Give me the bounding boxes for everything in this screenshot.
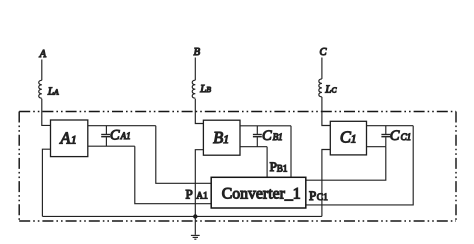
wire phase C drop — [321, 58, 323, 79]
svg-text:LB: LB — [199, 83, 211, 95]
svg-text:LA: LA — [47, 85, 59, 97]
enclosure dash-dot border right — [455, 112, 457, 222]
wire B lower vertical to converter top — [266, 147, 268, 178]
svg-text:LC: LC — [324, 83, 337, 95]
svg-text:C: C — [320, 47, 328, 58]
inductor LA coil — [39, 80, 42, 98]
svg-text:B: B — [213, 128, 223, 147]
wire C1 top-right terminal — [367, 125, 414, 127]
svg-text:Converter_1: Converter_1 — [222, 185, 301, 202]
wire B1 top-right terminal — [240, 125, 291, 127]
wire phase C rail into enclosure — [322, 97, 330, 126]
wire C upper corner to converter right lower — [306, 126, 413, 205]
wire phase B rail into enclosure — [195, 99, 203, 124]
ground stem — [194, 217, 196, 235]
wire phase A rail into enclosure — [42, 99, 51, 126]
svg-text:B: B — [194, 47, 201, 58]
svg-text:B1: B1 — [277, 163, 288, 173]
svg-text:C: C — [262, 128, 272, 144]
wire phase A drop — [41, 60, 43, 81]
capacitor CB1 top lead — [256, 126, 258, 134]
svg-text:P: P — [186, 186, 193, 201]
enclosure dash-dot border bottom — [19, 220, 456, 222]
capacitor CA1 plates — [101, 134, 110, 136]
wire A1 bottom-right terminal — [88, 145, 135, 147]
capacitor CC1 bottom lead — [385, 137, 387, 147]
converter U1 — [211, 177, 306, 208]
svg-text:C: C — [390, 128, 400, 144]
wire A lower corner to converter — [135, 146, 211, 204]
enclosure dash-dot border left — [18, 112, 20, 222]
wire A1 left-bottom stub to neutral — [42, 149, 50, 216]
wire A upper corner to converter — [156, 126, 211, 184]
ground symbol — [191, 234, 200, 236]
svg-text:A1: A1 — [196, 192, 208, 202]
capacitor CC1 plates — [381, 134, 390, 136]
capacitor CB1 bottom lead — [256, 137, 258, 147]
svg-text:A: A — [59, 128, 71, 147]
svg-text:P: P — [270, 159, 277, 174]
capacitor CB1 plates — [253, 134, 262, 136]
capacitor CA1 top lead — [105, 126, 107, 134]
svg-text:A1: A1 — [120, 131, 131, 141]
svg-text:1: 1 — [223, 134, 229, 146]
wire B1 bottom-right terminal — [240, 146, 267, 148]
block A1 — [51, 120, 88, 157]
wire phase B drop — [194, 58, 196, 81]
wire C1 left-bottom stub to neutral — [322, 150, 330, 217]
wire C1 bottom-right terminal — [367, 146, 386, 148]
svg-text:A: A — [39, 49, 47, 60]
wire neutral bottom bus — [42, 215, 322, 217]
svg-text:P: P — [309, 188, 316, 203]
svg-text:C: C — [110, 127, 120, 143]
svg-text:B1: B1 — [273, 132, 283, 142]
block C1 — [330, 121, 366, 155]
svg-text:C1: C1 — [317, 193, 328, 203]
junction dot neutral/ground — [193, 214, 197, 218]
block B1 — [203, 120, 240, 155]
svg-text:C1: C1 — [401, 132, 412, 142]
capacitor CC1 top lead — [385, 126, 387, 134]
inductor LC coil — [319, 79, 322, 97]
wire C lower corner to converter right upper — [306, 147, 386, 181]
enclosure dash-dot border top — [19, 111, 456, 113]
wire A1 top-right terminal — [88, 125, 156, 127]
svg-text:1: 1 — [351, 134, 357, 146]
inductor LB coil — [192, 80, 195, 98]
wire B upper vertical to converter top — [290, 126, 292, 178]
capacitor CA1 bottom lead — [105, 137, 107, 146]
svg-text:1: 1 — [71, 134, 77, 146]
wire B1 left-bottom stub to neutral — [195, 150, 203, 217]
